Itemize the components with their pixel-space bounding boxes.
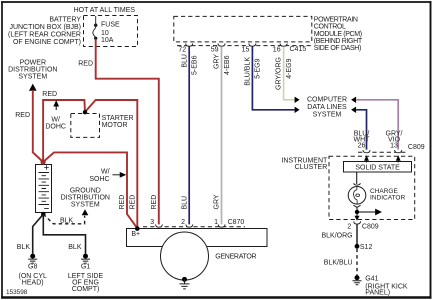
svg-text:RED: RED (151, 195, 158, 210)
svg-text:3: 3 (150, 219, 154, 226)
lamp terminal cup bottom (353, 205, 360, 207)
svg-text:SYSTEM: SYSTEM (313, 112, 342, 119)
svg-text:BLK: BLK (68, 244, 82, 251)
svg-text:SOLID STATE: SOLID STATE (355, 165, 400, 172)
arrow to GRY/VIO wire (351, 97, 356, 103)
arrow from GRY/ORG wire (295, 97, 300, 103)
connector C870 dashed line (143, 226, 245, 228)
wire RED battery to B+ (SOHC) (43, 152, 137, 228)
svg-text:GRY: GRY (214, 194, 221, 209)
svg-text:72: 72 (178, 47, 186, 54)
svg-text:B+: B+ (131, 231, 140, 238)
junction node (355, 210, 359, 214)
svg-text:2: 2 (181, 219, 185, 226)
svg-text:26: 26 (358, 143, 366, 150)
svg-text:COMPT): COMPT) (72, 286, 100, 293)
svg-text:W/: W/ (101, 168, 110, 175)
svg-text:SYSTEM: SYSTEM (18, 74, 47, 81)
wire GRY/VIO to cluster pin13 (356, 100, 398, 150)
svg-text:SOHC: SOHC (89, 176, 109, 183)
wire solid state to charge indicator (356, 172, 358, 184)
battery (36, 165, 52, 213)
generator circle (161, 232, 209, 280)
svg-text:5-EB6: 5-EB6 (192, 55, 199, 75)
wire GRY/ORG 4-EG9 pin16 to data lines arrow (284, 47, 295, 100)
instrument cluster dashed box (329, 156, 415, 219)
svg-text:DISTRIBUTION: DISTRIBUTION (61, 195, 110, 202)
ground G8 (28, 254, 37, 264)
svg-text:1: 1 (214, 219, 218, 226)
exit arrow down (355, 216, 360, 221)
svg-text:2: 2 (347, 223, 351, 230)
svg-text:RED: RED (42, 91, 57, 98)
wire BLK dashed to ground distribution (43, 214, 84, 224)
generator internal ground (180, 277, 190, 289)
svg-text:G41: G41 (365, 275, 378, 282)
border frame (1, 1, 431, 3)
wire BLU/WHT to cluster pin26 (356, 110, 366, 150)
wire RED power dist to battery (33, 90, 43, 162)
svg-text:15: 15 (242, 47, 250, 54)
svg-text:SIDE OF DASH): SIDE OF DASH) (314, 45, 361, 52)
svg-text:C870: C870 (228, 219, 245, 226)
internal arrow pin26 to solid state (365, 156, 369, 162)
generator box (127, 229, 268, 247)
svg-text:G8: G8 (28, 263, 37, 270)
arrow to BLU/WHT wire (351, 107, 356, 113)
power distribution arrow (29, 84, 37, 91)
svg-text:SYSTEM: SYSTEM (71, 202, 100, 209)
svg-text:BLK: BLK (60, 217, 74, 224)
svg-text:CLUSTER: CLUSTER (295, 164, 328, 171)
svg-text:BLU: BLU (181, 196, 188, 210)
svg-text:POWER: POWER (20, 60, 46, 67)
pin 26 cup (363, 150, 370, 153)
arrow from BLU/BLK wire (295, 107, 300, 113)
svg-text:BLU/BLK: BLU/BLK (245, 57, 252, 86)
node battery positive (41, 159, 46, 164)
node B+ (135, 226, 140, 231)
fuse F10 symbol (93, 16, 98, 40)
pin 3 cup (156, 224, 163, 227)
svg-text:RED: RED (129, 195, 136, 210)
svg-text:DISTRIBUTION: DISTRIBUTION (8, 67, 57, 74)
wire RED battery to starter/generator (DOHC) (43, 100, 137, 228)
svg-text:10: 10 (101, 30, 109, 37)
svg-text:59: 59 (211, 47, 219, 54)
svg-text:OF ENGINE COMPT): OF ENGINE COMPT) (13, 39, 81, 46)
pin 1 cup (218, 224, 225, 227)
svg-text:C809: C809 (362, 223, 379, 230)
wire BLK battery to G1 (43, 214, 85, 254)
svg-text:(LEFT REAR CORNER: (LEFT REAR CORNER (8, 31, 81, 38)
powertrain control module (PCM) dashed box (174, 16, 312, 42)
svg-text:BATTERY: BATTERY (49, 17, 81, 24)
solid state box (344, 162, 412, 173)
svg-text:HOT AT ALL TIMES: HOT AT ALL TIMES (74, 7, 136, 14)
svg-text:13: 13 (390, 143, 398, 150)
svg-text:CONTROL: CONTROL (314, 24, 346, 31)
svg-text:GRY/ORG: GRY/ORG (276, 57, 283, 90)
svg-text:BLK/ORG: BLK/ORG (321, 233, 352, 240)
svg-text:STARTER: STARTER (102, 115, 134, 122)
svg-text:10A: 10A (101, 37, 114, 44)
svg-text:MODULE (PCM): MODULE (PCM) (314, 31, 362, 38)
pin 2 cup (186, 224, 193, 227)
connector C809 dashed line (358, 151, 406, 153)
node battery negative (41, 212, 46, 217)
charge indicator lamp (348, 187, 366, 205)
svg-text:4-EG9: 4-EG9 (286, 58, 293, 78)
svg-text:4-EB6: 4-EB6 (224, 55, 231, 75)
wire BLK battery to G8 (33, 214, 44, 254)
svg-text:16: 16 (273, 47, 281, 54)
lamp filament (356, 186, 358, 203)
svg-text:FUSE: FUSE (101, 22, 120, 29)
svg-text:INDICATOR: INDICATOR (370, 194, 405, 201)
svg-text:W/: W/ (51, 116, 60, 123)
svg-text:RED: RED (15, 112, 30, 119)
svg-text:MOTOR: MOTOR (102, 122, 128, 129)
svg-text:JUNCTION BOX (BJB): JUNCTION BOX (BJB) (9, 24, 81, 31)
svg-text:C809: C809 (408, 144, 425, 151)
svg-text:DATA LINES: DATA LINES (307, 104, 347, 111)
svg-text:PANEL): PANEL) (365, 289, 390, 296)
wire lamp to junction (356, 207, 358, 219)
svg-text:GENERATOR: GENERATOR (215, 254, 256, 261)
splice S12 (355, 244, 360, 249)
wire GRY 4-EB6 pin59 to generator pin1 (221, 47, 223, 226)
svg-text:S12: S12 (360, 244, 373, 251)
svg-text:GRY: GRY (214, 54, 221, 69)
svg-text:(BEHIND RIGHT: (BEHIND RIGHT (314, 38, 363, 45)
pin 2 cup (354, 221, 361, 224)
node starter feed (83, 110, 87, 114)
svg-text:BLK: BLK (17, 244, 31, 251)
wire BLK/ORG pin2 to S12 (356, 224, 358, 246)
svg-text:5-EG9: 5-EG9 (255, 58, 262, 78)
ground G1 (81, 254, 90, 264)
wire BLU 5-EB6 pin72 to generator pin2 (188, 47, 190, 226)
svg-text:BLK/BLU: BLK/BLU (324, 260, 353, 267)
branch arrow right (357, 210, 381, 215)
wire RED fuse to generator pin3 (96, 39, 159, 225)
svg-text:RED: RED (78, 61, 93, 68)
wire BLU/BLK 5-EG9 pin15 to data lines arrow (252, 47, 294, 110)
svg-text:GROUND: GROUND (70, 188, 101, 195)
internal arrow pin13 to solid state (396, 156, 400, 162)
svg-text:COMPUTER: COMPUTER (307, 97, 347, 104)
connector C415 dashed line (177, 45, 311, 47)
svg-text:C415: C415 (290, 46, 307, 53)
battery junction box (BJB) dashed box (84, 16, 138, 47)
wire BLK/BLU S12 to G41 (dashed) (356, 249, 358, 276)
wire battery top stub (42, 162, 44, 165)
ground G41 (353, 275, 362, 285)
starter motor dashed box (71, 114, 100, 138)
ground distribution arrow (82, 209, 89, 215)
svg-text:153598: 153598 (6, 289, 28, 296)
lamp terminal cup top (354, 183, 361, 185)
svg-text:HEAD): HEAD) (22, 279, 44, 286)
svg-text:G1: G1 (81, 263, 90, 270)
svg-text:RED: RED (119, 195, 126, 210)
svg-text:POWERTRAIN: POWERTRAIN (314, 17, 358, 24)
svg-text:BLU: BLU (181, 54, 188, 68)
svg-text:DOHC: DOHC (45, 123, 66, 130)
pin 13 cup (395, 150, 402, 153)
